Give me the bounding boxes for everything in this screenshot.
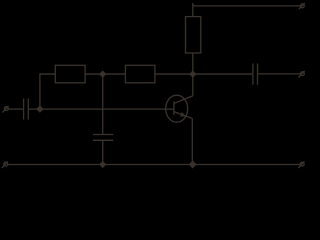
port P1 input <box>2 106 8 113</box>
node collector junction <box>190 71 196 77</box>
port P5 ground right <box>298 161 304 168</box>
wire top rail <box>193 5 301 7</box>
wire C2 to output port <box>258 73 301 75</box>
resistor R1 <box>55 65 85 83</box>
wire emitter to ground <box>191 118 193 164</box>
wire C3 to ground rail <box>102 140 104 164</box>
port P3 mid right <box>299 71 305 78</box>
capacitor C3 <box>93 135 113 141</box>
node base junction <box>37 106 43 112</box>
resistor R2 <box>125 65 154 83</box>
ground rail wire <box>7 164 300 166</box>
capacitor C2 <box>253 64 258 85</box>
port P2 top right <box>299 3 305 9</box>
node C3 ground junction <box>100 161 106 167</box>
wire mid rail R2 to C2 <box>155 73 253 75</box>
wire R1 left and down to base row <box>40 74 55 109</box>
node emitter ground junction <box>189 161 196 168</box>
port P4 ground left <box>2 161 8 168</box>
wire node A down to C3 <box>102 74 104 134</box>
resistor R3 <box>186 17 201 53</box>
capacitor C1 <box>24 98 29 119</box>
node A junction <box>100 71 106 77</box>
transistor Q1 <box>166 95 193 122</box>
wire input to C1 <box>8 108 23 110</box>
wire R1 to R2 <box>85 73 125 75</box>
wire resistor bottom to collector <box>192 53 194 96</box>
wire C1 to transistor base <box>29 108 174 110</box>
supply arrow tick <box>192 3 194 17</box>
